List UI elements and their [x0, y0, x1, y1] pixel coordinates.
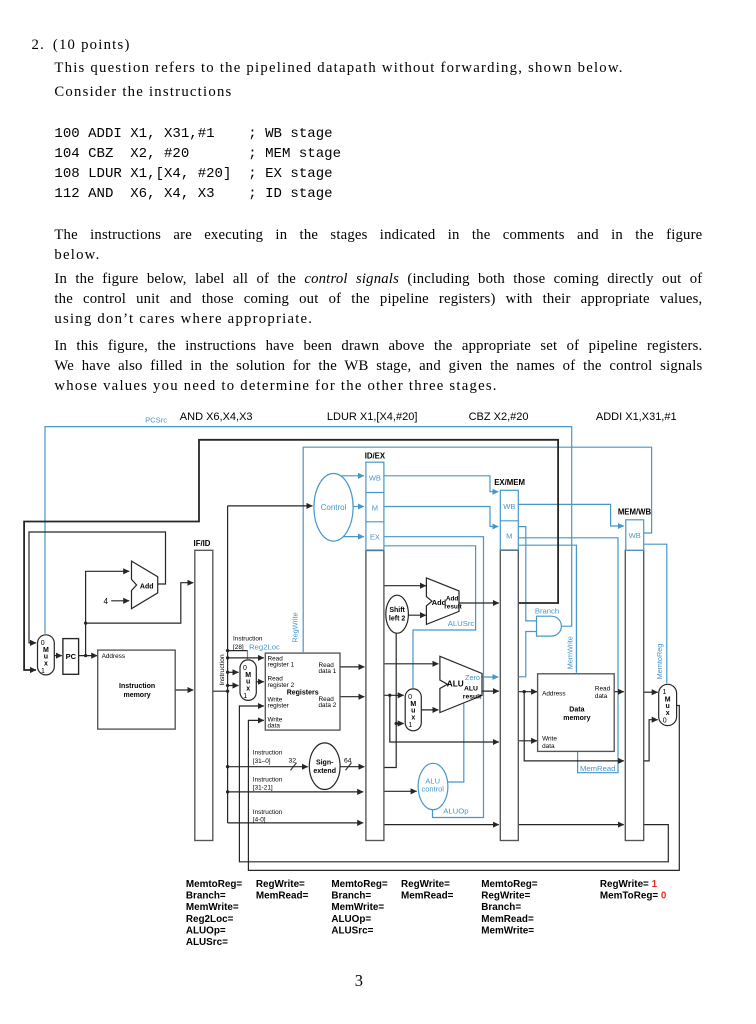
junction instruction bus 31-21 — [226, 790, 229, 793]
junction immediate — [395, 722, 398, 725]
svg-text:control: control — [421, 785, 444, 794]
svg-text:MEM/WB: MEM/WB — [618, 508, 652, 517]
svg-text:WB: WB — [503, 502, 515, 511]
junction instruction bus ifid — [226, 690, 229, 693]
wire MEM/WB ALU result to mux input 0 — [644, 720, 658, 761]
wire EX/MEM WB to MEM/WB WB — [518, 504, 624, 526]
adder Add PC+4 — [132, 561, 158, 609]
wire ID/EX opcode to ALU control — [384, 790, 417, 792]
svg-text:Write: Write — [542, 735, 557, 742]
wire read data 2 down to EX/MEM write data — [390, 695, 499, 742]
wire Control to ID/EX WB — [341, 475, 364, 477]
paragraph 3 — [54, 225, 702, 245]
wire instruction [4-0] to ID/EX — [228, 822, 364, 824]
svg-text:WB: WB — [629, 531, 641, 540]
svg-text:Address: Address — [102, 653, 125, 660]
wire Zero flag ALU to EX/MEM — [482, 676, 498, 678]
svg-text:MemRead=: MemRead= — [481, 914, 534, 925]
ALU control ellipse — [418, 763, 448, 809]
wire instruction to Reg2Loc mux input 0 — [228, 671, 239, 673]
pipeline register EX/MEM — [500, 550, 518, 840]
svg-text:data 2: data 2 — [319, 702, 337, 709]
svg-text:Branch: Branch — [535, 607, 559, 616]
svg-text:0: 0 — [408, 694, 412, 701]
ID/EX control stack WB M EX — [366, 462, 384, 550]
svg-text:x: x — [44, 661, 48, 668]
svg-text:result: result — [444, 603, 462, 610]
svg-text:[4-0]: [4-0] — [253, 817, 266, 824]
junction PC-IFID — [84, 621, 87, 624]
svg-text:Reg2Loc=: Reg2Loc= — [186, 914, 234, 925]
svg-text:MemWrite: MemWrite — [566, 636, 575, 669]
svg-text:[28]: [28] — [233, 644, 244, 651]
control unit ellipse — [314, 474, 353, 542]
paragraph 4 — [54, 269, 702, 289]
svg-text:register: register — [268, 703, 290, 710]
svg-text:Shift: Shift — [389, 607, 405, 614]
svg-text:Reg2Loc: Reg2Loc — [249, 642, 280, 651]
svg-text:Add: Add — [446, 596, 459, 603]
svg-text:Data: Data — [569, 706, 584, 713]
svg-text:MemWrite=: MemWrite= — [186, 902, 239, 913]
wire PC value up to Add input — [86, 571, 130, 655]
wire MemWrite to data memory top — [518, 545, 576, 673]
paragraph 2 — [54, 82, 232, 102]
svg-text:MemWrite=: MemWrite= — [481, 926, 534, 937]
svg-text:MemtoReg=: MemtoReg= — [481, 879, 537, 890]
svg-text:PC: PC — [66, 652, 77, 661]
svg-text:1: 1 — [663, 689, 667, 696]
svg-text:Instruction: Instruction — [233, 636, 263, 643]
wire sign-extend output to ID/EX — [340, 766, 364, 768]
junction read data 2 — [388, 694, 391, 697]
svg-text:ALUSrc: ALUSrc — [448, 619, 475, 628]
wire instruction bus vertical — [227, 506, 229, 823]
wire PC value to IF/ID — [86, 583, 194, 623]
svg-text:AND X6,X4,X3: AND X6,X4,X3 — [180, 411, 253, 423]
svg-text:register 1: register 1 — [268, 662, 295, 669]
svg-text:ALUOp=: ALUOp= — [331, 914, 371, 925]
wire shift left 2 output to Add — [408, 614, 426, 616]
svg-text:MemtoReg: MemtoReg — [655, 644, 664, 680]
mux PC source — [38, 635, 55, 675]
junction instruction bus 28 — [226, 649, 229, 652]
svg-text:ALUOp=: ALUOp= — [186, 926, 226, 937]
svg-text:memory: memory — [123, 692, 150, 699]
wire instruction to Reg2Loc mux input 1 — [228, 685, 239, 687]
wire MemtoReg: MEM/WB WB to write-back mux select — [644, 544, 667, 683]
svg-text:1: 1 — [408, 722, 412, 729]
wire ID/EX read data 2 to ALU mux input 0 — [384, 694, 404, 696]
svg-text:64: 64 — [344, 757, 352, 764]
svg-text:MemRead=: MemRead= — [256, 891, 309, 902]
svg-text:x: x — [411, 715, 415, 722]
wire ID/EX PC value to Add — [384, 585, 426, 587]
svg-text:result: result — [463, 693, 482, 700]
mux Reg2Loc — [240, 660, 256, 701]
svg-text:0: 0 — [41, 640, 45, 647]
wire ALU control to ALU — [447, 704, 464, 783]
svg-text:PCSrc: PCSrc — [145, 416, 167, 425]
junction instruction bus signext — [226, 765, 229, 768]
svg-text:Branch=: Branch= — [186, 891, 226, 902]
svg-text:ADDI X1,X31,#1: ADDI X1,X31,#1 — [596, 411, 677, 423]
paragraph 5 — [54, 336, 702, 356]
svg-text:data: data — [268, 723, 281, 730]
svg-text:[31–0]: [31–0] — [253, 758, 271, 765]
wire ALU result to EX/MEM — [482, 690, 499, 692]
svg-text:ID/EX: ID/EX — [365, 452, 386, 461]
wire Reg2Loc select drop to mux — [247, 651, 249, 659]
wire Control to ID/EX M — [353, 506, 364, 508]
paragraph 1 — [54, 58, 623, 78]
mux write-back MemtoReg — [659, 684, 677, 725]
svg-text:Branch=: Branch= — [481, 902, 521, 913]
wire PC mux output to PC — [54, 655, 62, 657]
svg-text:Instruction: Instruction — [253, 776, 283, 783]
junction PC-address — [84, 654, 87, 657]
wire RegWrite: MEM/WB WB back to Registers — [303, 447, 651, 652]
instruction memory box — [98, 650, 176, 729]
svg-text:Read: Read — [595, 685, 611, 692]
wire instruction bus to Control — [228, 505, 313, 507]
wire EX/MEM ALU result to data memory address — [518, 691, 537, 693]
svg-text:1: 1 — [41, 668, 45, 675]
wire ID/EX read data 1 to ALU — [384, 663, 439, 665]
slash 32-bit bus mark — [291, 763, 297, 771]
wire Control to ID/EX EX — [343, 536, 364, 538]
pipeline register ID/EX — [366, 551, 384, 841]
svg-text:Instruction: Instruction — [119, 683, 155, 690]
wire ALU result around data memory to MEM/WB — [524, 692, 624, 761]
junction instruction bus mux0 — [226, 671, 229, 674]
wire Zero flag EX/MEM to AND gate — [518, 632, 536, 677]
svg-text:RegWrite=: RegWrite= — [401, 879, 450, 890]
wire ALUOp: ID/EX EX to ALU control — [384, 537, 484, 818]
wire ALUSrc: ID/EX EX to ALU mux select — [384, 546, 476, 688]
svg-text:IF/ID: IF/ID — [194, 539, 211, 548]
MEM/WB control stack WB — [626, 520, 644, 550]
svg-text:data: data — [542, 743, 555, 750]
svg-text:Registers: Registers — [287, 689, 319, 696]
svg-text:0: 0 — [243, 665, 247, 672]
junction ALU result — [523, 690, 526, 693]
wire read data 1 to ID/EX — [340, 666, 364, 668]
wire constant 4 to Add — [111, 600, 129, 602]
EX/MEM control stack WB M — [500, 490, 518, 550]
code block — [54, 124, 341, 205]
svg-text:Add: Add — [140, 583, 154, 590]
svg-text:ALUSrc=: ALUSrc= — [331, 926, 373, 937]
svg-text:LDUR X1,[X4,#20]: LDUR X1,[X4,#20] — [327, 411, 418, 423]
svg-text:ALU: ALU — [464, 685, 478, 692]
svg-text:MemtoReg=: MemtoReg= — [331, 879, 387, 890]
adder Add branch target — [426, 578, 459, 625]
wire ID/EX M to EX/MEM M — [384, 507, 498, 527]
svg-text:EX: EX — [370, 533, 380, 542]
svg-text:Control: Control — [321, 503, 347, 512]
svg-text:MemRead=: MemRead= — [401, 891, 454, 902]
wire ID/EX WB to EX/MEM WB — [384, 476, 498, 492]
wire immediate up to shift left 2 — [384, 633, 396, 767]
wire MEM/WB register number back to write register — [239, 706, 668, 862]
wire ID/EX register number [4-0] to EX/MEM — [384, 824, 499, 826]
svg-text:4: 4 — [104, 597, 109, 606]
wire instruction [31-21] to ID/EX — [228, 791, 364, 793]
svg-text:RegWrite=: RegWrite= — [481, 891, 530, 902]
svg-text:x: x — [666, 710, 670, 717]
mux ALU source — [405, 689, 421, 731]
svg-text:MemToReg= 0: MemToReg= 0 — [600, 891, 667, 902]
sign-extend ellipse — [309, 743, 340, 790]
svg-text:extend: extend — [313, 768, 336, 775]
wire instruction [31-0] to sign-extend — [228, 766, 308, 768]
svg-text:WB: WB — [369, 474, 381, 483]
svg-text:ALUOp: ALUOp — [443, 807, 468, 816]
wire IF/ID instruction output to bus — [212, 690, 228, 692]
svg-text:1: 1 — [243, 693, 247, 700]
svg-text:EX/MEM: EX/MEM — [494, 478, 525, 487]
svg-text:32: 32 — [289, 757, 297, 764]
svg-text:Address: Address — [542, 690, 565, 697]
junction instruction bus rr1 — [226, 656, 229, 659]
wire branch target loop: EX/MEM to PC mux input 1 — [24, 440, 558, 670]
svg-text:M: M — [506, 532, 512, 541]
svg-text:ALUSrc=: ALUSrc= — [186, 937, 228, 948]
svg-text:Instruction: Instruction — [219, 654, 226, 686]
svg-text:Instruction: Instruction — [253, 750, 283, 757]
svg-text:x: x — [246, 686, 250, 693]
wire MemRead to data memory bottom — [518, 538, 618, 773]
wire Branch signal to AND gate — [518, 527, 536, 621]
wire Reg2Loc mux output to read register 2 — [256, 681, 264, 683]
wire EX/MEM write data to data memory — [518, 740, 537, 742]
svg-text:MemtoReg=: MemtoReg= — [186, 879, 242, 890]
ALU — [440, 656, 482, 712]
pipeline register MEM/WB — [625, 550, 643, 840]
wire ALU mux output to ALU — [421, 709, 438, 711]
registers box — [265, 653, 340, 730]
svg-text:data: data — [595, 693, 608, 700]
svg-text:ALU: ALU — [447, 680, 464, 689]
wire write-back mux output to write data — [248, 706, 679, 871]
svg-text:CBZ X2,#20: CBZ X2,#20 — [469, 411, 529, 423]
svg-text:RegWrite: RegWrite — [290, 612, 299, 642]
svg-text:[31-21]: [31-21] — [253, 785, 273, 792]
page number — [355, 971, 363, 991]
svg-text:MemWrite=: MemWrite= — [331, 902, 384, 913]
svg-text:left 2: left 2 — [389, 616, 405, 623]
svg-text:memory: memory — [563, 715, 590, 722]
svg-text:register 2: register 2 — [268, 682, 295, 689]
svg-text:Sign-: Sign- — [316, 760, 334, 767]
wire read data 2 to ID/EX — [340, 696, 364, 698]
heading: 2. (10 points) — [32, 35, 131, 55]
slash 64-bit bus mark — [346, 763, 352, 771]
svg-text:MemRead: MemRead — [580, 764, 615, 773]
wire MEM/WB read data to mux input 1 — [644, 691, 658, 693]
branch AND gate — [537, 616, 562, 636]
wire PCSrc: branch AND output to PC mux select — [45, 427, 572, 634]
svg-text:Zero: Zero — [465, 673, 480, 682]
pipeline register IF/ID — [195, 550, 213, 840]
wire instruction [28] — [228, 650, 248, 652]
wire instruction memory to IF/ID — [176, 689, 194, 691]
wire instruction to read register 1 — [228, 657, 264, 659]
wire PC+4 loop: Add output to PC mux input 0 — [29, 532, 166, 643]
data memory box — [538, 674, 615, 752]
svg-text:RegWrite=: RegWrite= — [256, 879, 305, 890]
PC box — [63, 639, 79, 675]
wire PC to instruction memory address — [77, 655, 97, 657]
shift left 2 ellipse — [386, 595, 409, 633]
svg-text:Instruction: Instruction — [253, 809, 283, 816]
svg-text:0: 0 — [663, 717, 667, 724]
wire data memory read data to MEM/WB — [614, 691, 624, 693]
svg-text:RegWrite= 1: RegWrite= 1 — [600, 879, 658, 890]
wire immediate to ALU mux input 1 — [396, 723, 404, 725]
junction instruction bus mux1 — [226, 684, 229, 687]
svg-text:Branch=: Branch= — [331, 891, 371, 902]
wire Add result to EX/MEM — [459, 602, 499, 604]
svg-text:M: M — [372, 503, 378, 512]
wire EX/MEM register number to MEM/WB — [518, 824, 624, 826]
svg-text:data 1: data 1 — [319, 668, 337, 675]
